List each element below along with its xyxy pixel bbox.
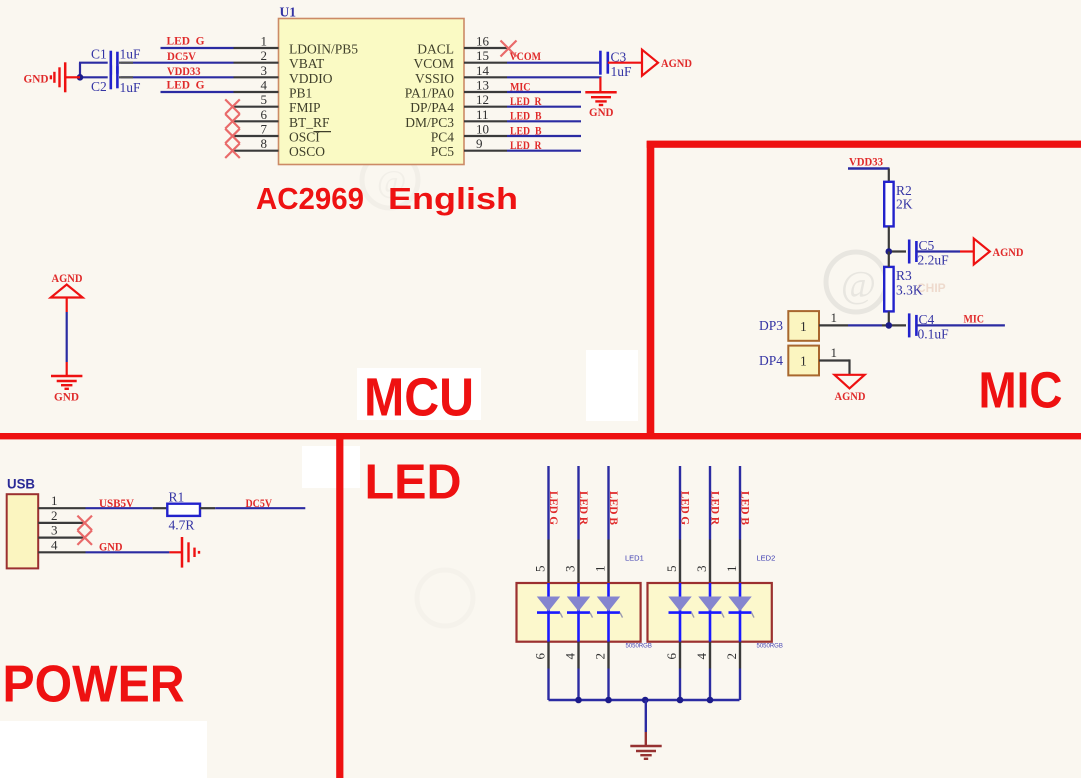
- wire LED pin12: [507, 106, 581, 108]
- capacitor C3 1uF: [600, 50, 632, 80]
- svg-text:1: 1: [831, 345, 838, 360]
- wire LED pin10: [507, 135, 581, 137]
- pin 15 stub U1: [413, 48, 507, 71]
- overline OSCI active-low: [314, 131, 332, 133]
- svg-text:DP3: DP3: [759, 318, 783, 333]
- svg-text:5050RGB: 5050RGB: [757, 644, 783, 650]
- wire LED cathode col5: [709, 669, 711, 701]
- pin 9 stub U1: [431, 136, 507, 159]
- pin 4 LED col5: [694, 642, 710, 669]
- connector USB body: [7, 494, 39, 568]
- wire LED cathode col1: [547, 669, 549, 701]
- svg-text:@: @: [841, 264, 876, 306]
- ground GND left of C2: [51, 62, 80, 92]
- wire LED net LED R col5: [709, 466, 711, 540]
- pin 14 stub U1: [415, 63, 507, 86]
- svg-text:10: 10: [476, 122, 489, 137]
- watermark faint stamp MIC: [826, 252, 886, 312]
- connector DP4: [759, 346, 819, 376]
- svg-text:DP/PA4: DP/PA4: [410, 100, 454, 115]
- diode LED D2: [567, 583, 593, 642]
- pin 1 LED col6: [724, 540, 740, 584]
- pin 6 LED col4: [664, 642, 680, 669]
- svg-text:4: 4: [563, 653, 578, 660]
- junction node bus x578: [575, 697, 582, 704]
- wire LED_G pin4: [161, 91, 234, 93]
- wire MIC pin13: [507, 91, 581, 93]
- svg-text:GND: GND: [99, 542, 123, 554]
- svg-text:DP4: DP4: [759, 353, 783, 368]
- no-connect X pin 8: [225, 143, 240, 158]
- pin 10 stub U1: [431, 122, 507, 145]
- pin 1 DP3: [819, 310, 848, 325]
- svg-text:3: 3: [51, 523, 58, 538]
- pin 5 stub U1: [234, 92, 321, 115]
- svg-text:8: 8: [261, 136, 268, 151]
- pin 6 LED col1: [533, 642, 549, 669]
- power port AGND below DP4: [835, 375, 866, 403]
- svg-text:C2: C2: [0, 0, 16, 3]
- resistor R2 2K: [884, 182, 913, 227]
- svg-text:POWER: POWER: [3, 656, 185, 714]
- pin 1 stub U1: [234, 34, 359, 57]
- svg-text:LED1: LED1: [625, 554, 644, 563]
- ground GND under C3: [585, 92, 616, 119]
- section divider vertical MIC box: [647, 141, 655, 436]
- wire VCOM pin15: [507, 62, 599, 64]
- wire C4 to MIC net: [916, 324, 1005, 326]
- wire VSSIO pin14: [507, 76, 602, 78]
- pin 16 stub U1: [417, 34, 507, 57]
- watermark faint stamp chip: [362, 152, 418, 208]
- svg-text:GND: GND: [54, 392, 79, 404]
- junction node bus x645: [642, 697, 649, 704]
- pin 1 USB: [38, 493, 85, 508]
- svg-text:1: 1: [261, 34, 268, 49]
- wire LED net LED G col4: [679, 466, 681, 540]
- svg-text:4: 4: [261, 78, 268, 93]
- svg-text:FMIP: FMIP: [289, 100, 321, 115]
- capacitor C1 1uF: [0, 0, 117, 75]
- wire node to R3: [888, 252, 890, 267]
- svg-text:VDD33: VDD33: [849, 157, 883, 169]
- watermark faint stamp center: [417, 570, 473, 626]
- svg-text:11: 11: [476, 107, 489, 122]
- svg-text:1: 1: [800, 319, 807, 334]
- pin 6 stub U1: [234, 107, 331, 130]
- junction node bus x680: [677, 697, 684, 704]
- svg-text:LED R: LED R: [510, 140, 542, 152]
- svg-text:GND: GND: [24, 74, 49, 86]
- svg-text:AGND: AGND: [661, 58, 692, 70]
- no-connect X USB pin3: [77, 530, 92, 545]
- wire down to GND under C3: [599, 77, 601, 92]
- diode LED D5: [699, 583, 725, 642]
- svg-text:2.2uF: 2.2uF: [918, 253, 950, 268]
- svg-text:LED R: LED R: [510, 96, 542, 108]
- svg-text:2: 2: [593, 653, 608, 660]
- watermark white patch behind MCU label: [357, 368, 481, 420]
- pin 5 LED col1: [533, 540, 549, 584]
- svg-text:14: 14: [476, 63, 490, 78]
- svg-text:VDDIO: VDDIO: [289, 71, 333, 86]
- wire DC5V: [215, 507, 305, 509]
- capacitor C2 1uF: [0, 0, 117, 89]
- capacitor C4 0.1uF: [909, 312, 949, 342]
- wire VDD33 pin3: [119, 76, 234, 78]
- LED1 package body: [517, 554, 652, 650]
- wire LED cathode col2: [577, 669, 579, 701]
- svg-text:LED R: LED R: [577, 491, 589, 526]
- svg-text:LED B: LED B: [510, 111, 542, 123]
- wire LED net LED G col1: [547, 466, 549, 540]
- svg-text:VBAT: VBAT: [289, 56, 325, 71]
- svg-text:AC2969: AC2969: [256, 182, 364, 216]
- junction node bus x608: [605, 697, 612, 704]
- diode LED D3: [597, 583, 623, 642]
- svg-text:LED B: LED B: [739, 491, 751, 525]
- svg-text:USB: USB: [7, 477, 35, 492]
- diode LED D4: [669, 583, 695, 642]
- wire node2 to C4: [882, 324, 906, 326]
- svg-text:6: 6: [664, 653, 679, 660]
- wire DP4 to AGND: [848, 359, 850, 374]
- watermark white patch right of MCU: [586, 350, 638, 421]
- wire R1 right: [200, 507, 215, 509]
- svg-text:2K: 2K: [896, 197, 913, 212]
- section divider horizontal main: [0, 433, 1081, 439]
- svg-text:LED G: LED G: [167, 80, 205, 92]
- svg-text:C1: C1: [91, 47, 107, 62]
- svg-text:0.1uF: 0.1uF: [918, 327, 950, 342]
- ground GND standalone: [51, 376, 82, 404]
- wire LED_G pin1: [161, 47, 234, 49]
- wire C3 to AGND: [608, 62, 642, 64]
- no-connect X USB pin2: [77, 516, 92, 531]
- svg-text:AGND: AGND: [52, 273, 83, 285]
- svg-text:LED: LED: [365, 456, 462, 510]
- svg-text:4: 4: [694, 653, 709, 660]
- svg-text:PC5: PC5: [431, 144, 455, 159]
- svg-text:AGND: AGND: [835, 391, 866, 403]
- watermark white patch POWER corner: [302, 446, 360, 488]
- junction node C1/C2/GND: [77, 74, 84, 81]
- svg-text:OSCO: OSCO: [289, 144, 325, 159]
- svg-text:LDOIN/PB5: LDOIN/PB5: [289, 42, 358, 57]
- junction node R2/R3/C5: [886, 248, 893, 255]
- wire LED net LED B col6: [739, 466, 741, 540]
- svg-text:U1: U1: [280, 5, 297, 20]
- svg-text:13: 13: [476, 78, 489, 93]
- svg-text:DC5V: DC5V: [167, 51, 197, 63]
- svg-text:C2: C2: [91, 79, 107, 94]
- svg-text:3: 3: [694, 566, 709, 573]
- pin 3 USB: [38, 523, 85, 538]
- wire R2 to node: [888, 226, 890, 251]
- wire R3 to node2: [888, 311, 890, 325]
- svg-text:LED G: LED G: [167, 35, 205, 47]
- power port AGND right of C5: [974, 239, 1024, 265]
- pin 4 USB: [38, 537, 85, 552]
- svg-text:2: 2: [724, 653, 739, 660]
- no-connect X pin 6: [225, 114, 240, 129]
- no-connect X pin 16: [501, 41, 517, 57]
- svg-text:MIC: MIC: [964, 314, 985, 326]
- wire to R1: [153, 507, 168, 509]
- wire LED cathode col4: [679, 669, 681, 701]
- wire cathode bus: [549, 699, 740, 701]
- svg-text:R1: R1: [169, 490, 185, 505]
- wire USB5V: [86, 507, 153, 509]
- svg-text:1: 1: [831, 310, 838, 325]
- svg-text:1: 1: [593, 566, 608, 573]
- svg-text:15: 15: [476, 48, 489, 63]
- pin 8 stub U1: [234, 136, 326, 159]
- pin 2 LED col6: [724, 642, 740, 669]
- wire LED net LED B col3: [607, 466, 609, 540]
- svg-text:2: 2: [51, 508, 58, 523]
- section divider horizontal MIC top: [647, 141, 1081, 148]
- pin 2 LED col3: [593, 642, 609, 669]
- svg-text:LED B: LED B: [607, 491, 619, 525]
- pin 3 stub U1: [234, 63, 333, 86]
- wire node to C5: [889, 250, 906, 252]
- power port VDD33: [848, 157, 890, 183]
- svg-text:1: 1: [724, 566, 739, 573]
- wire LED cathode col3: [607, 669, 609, 701]
- connector DP3: [759, 311, 819, 341]
- diode LED D1: [537, 583, 563, 642]
- wire GND USB pin4: [86, 551, 170, 553]
- pin 13 stub U1: [405, 78, 507, 101]
- svg-text:VCOM: VCOM: [413, 56, 454, 71]
- svg-text:DACL: DACL: [417, 42, 454, 57]
- svg-text:5: 5: [664, 566, 679, 573]
- wire LED net LED R col2: [577, 466, 579, 540]
- svg-text:6: 6: [261, 107, 268, 122]
- svg-text:1: 1: [800, 354, 807, 369]
- svg-text:AGND: AGND: [993, 247, 1024, 259]
- pin 5 LED col4: [664, 540, 680, 584]
- svg-text:1uF: 1uF: [120, 80, 142, 95]
- LED2 package body: [648, 554, 783, 650]
- svg-text:GND: GND: [589, 107, 614, 119]
- svg-text:VDD33: VDD33: [167, 66, 201, 78]
- ground LED common: [630, 746, 661, 759]
- no-connect X pin 5: [225, 99, 240, 114]
- power port AGND standalone: [51, 273, 83, 298]
- svg-text:MIC: MIC: [510, 82, 531, 94]
- svg-text:DC5V: DC5V: [246, 498, 273, 510]
- svg-text:7: 7: [261, 122, 268, 137]
- svg-text:5050RGB: 5050RGB: [626, 644, 652, 650]
- wire junction to C1: [79, 63, 108, 78]
- svg-text:1uF: 1uF: [611, 64, 633, 79]
- junction node bus x710: [707, 697, 714, 704]
- wire C5 to AGND: [916, 250, 973, 252]
- svg-text:5: 5: [533, 566, 548, 573]
- watermark white rectangle bottom-left: [0, 721, 207, 778]
- svg-text:1uF: 1uF: [120, 47, 142, 62]
- svg-text:LED G: LED G: [679, 491, 691, 525]
- pin 1 DP4: [819, 345, 850, 361]
- pin 7 stub U1: [234, 122, 321, 145]
- svg-text:LED G: LED G: [547, 491, 559, 525]
- svg-text:4.7R: 4.7R: [169, 518, 195, 533]
- svg-text:3: 3: [563, 566, 578, 573]
- svg-text:6: 6: [533, 653, 548, 660]
- capacitor C5 2.2uF: [909, 238, 949, 268]
- svg-text:12: 12: [476, 92, 489, 107]
- wire LED cathode col6: [739, 669, 741, 701]
- wire GND to C2: [80, 76, 108, 78]
- svg-text:4: 4: [51, 537, 58, 552]
- svg-text:LED B: LED B: [510, 125, 542, 137]
- pin 1 LED col3: [593, 540, 609, 584]
- svg-text:BT_RF: BT_RF: [289, 115, 330, 130]
- ground GND right of USB: [169, 537, 199, 568]
- svg-text:2: 2: [261, 48, 268, 63]
- svg-text:DM/PC3: DM/PC3: [405, 115, 454, 130]
- svg-text:VCOM: VCOM: [510, 51, 542, 63]
- wire bus to ground: [645, 700, 647, 746]
- svg-text:1: 1: [51, 493, 58, 508]
- svg-text:5: 5: [261, 92, 268, 107]
- pin 2 USB: [38, 508, 85, 523]
- wire LED pin9: [507, 150, 581, 152]
- wire AGND to GND tie: [66, 298, 68, 376]
- pin 3 LED col2: [563, 540, 579, 584]
- svg-text:PA1/PA0: PA1/PA0: [405, 86, 455, 101]
- svg-text:9: 9: [476, 136, 483, 151]
- svg-text:English: English: [388, 182, 518, 216]
- pin 3 LED col5: [694, 540, 710, 584]
- svg-text:3.3K: 3.3K: [896, 283, 923, 298]
- pin 4 LED col2: [563, 642, 579, 669]
- svg-text:MCU: MCU: [364, 368, 474, 428]
- svg-text:MIC: MIC: [979, 362, 1063, 419]
- pin 12 stub U1: [410, 92, 507, 115]
- svg-text:PB1: PB1: [289, 86, 312, 101]
- svg-text:16: 16: [476, 34, 490, 49]
- svg-text:VSSIO: VSSIO: [415, 71, 454, 86]
- pin 11 stub U1: [405, 107, 507, 130]
- wire DC5V pin2: [119, 62, 234, 64]
- svg-text:LED2: LED2: [757, 554, 776, 563]
- no-connect X pin 7: [225, 129, 240, 144]
- svg-text:3: 3: [261, 63, 268, 78]
- svg-text:PC4: PC4: [431, 130, 455, 145]
- resistor R3 3.3K: [884, 267, 923, 312]
- pin 2 stub U1: [234, 48, 326, 71]
- op-amp U1 chip body: [279, 19, 465, 165]
- power port AGND right of C3: [642, 50, 692, 76]
- section divider vertical LED/POWER: [336, 434, 343, 778]
- svg-text:LED R: LED R: [709, 491, 721, 526]
- pin 4 stub U1: [234, 78, 313, 101]
- diode LED D6: [729, 583, 755, 642]
- wire DP3 to node2: [848, 324, 882, 326]
- svg-text:USB5V: USB5V: [99, 498, 135, 510]
- junction node R3/C4/DP3: [886, 322, 893, 329]
- svg-text:R3: R3: [896, 268, 912, 283]
- resistor R1 4.7R: [167, 490, 200, 533]
- wire LED pin11: [507, 120, 581, 122]
